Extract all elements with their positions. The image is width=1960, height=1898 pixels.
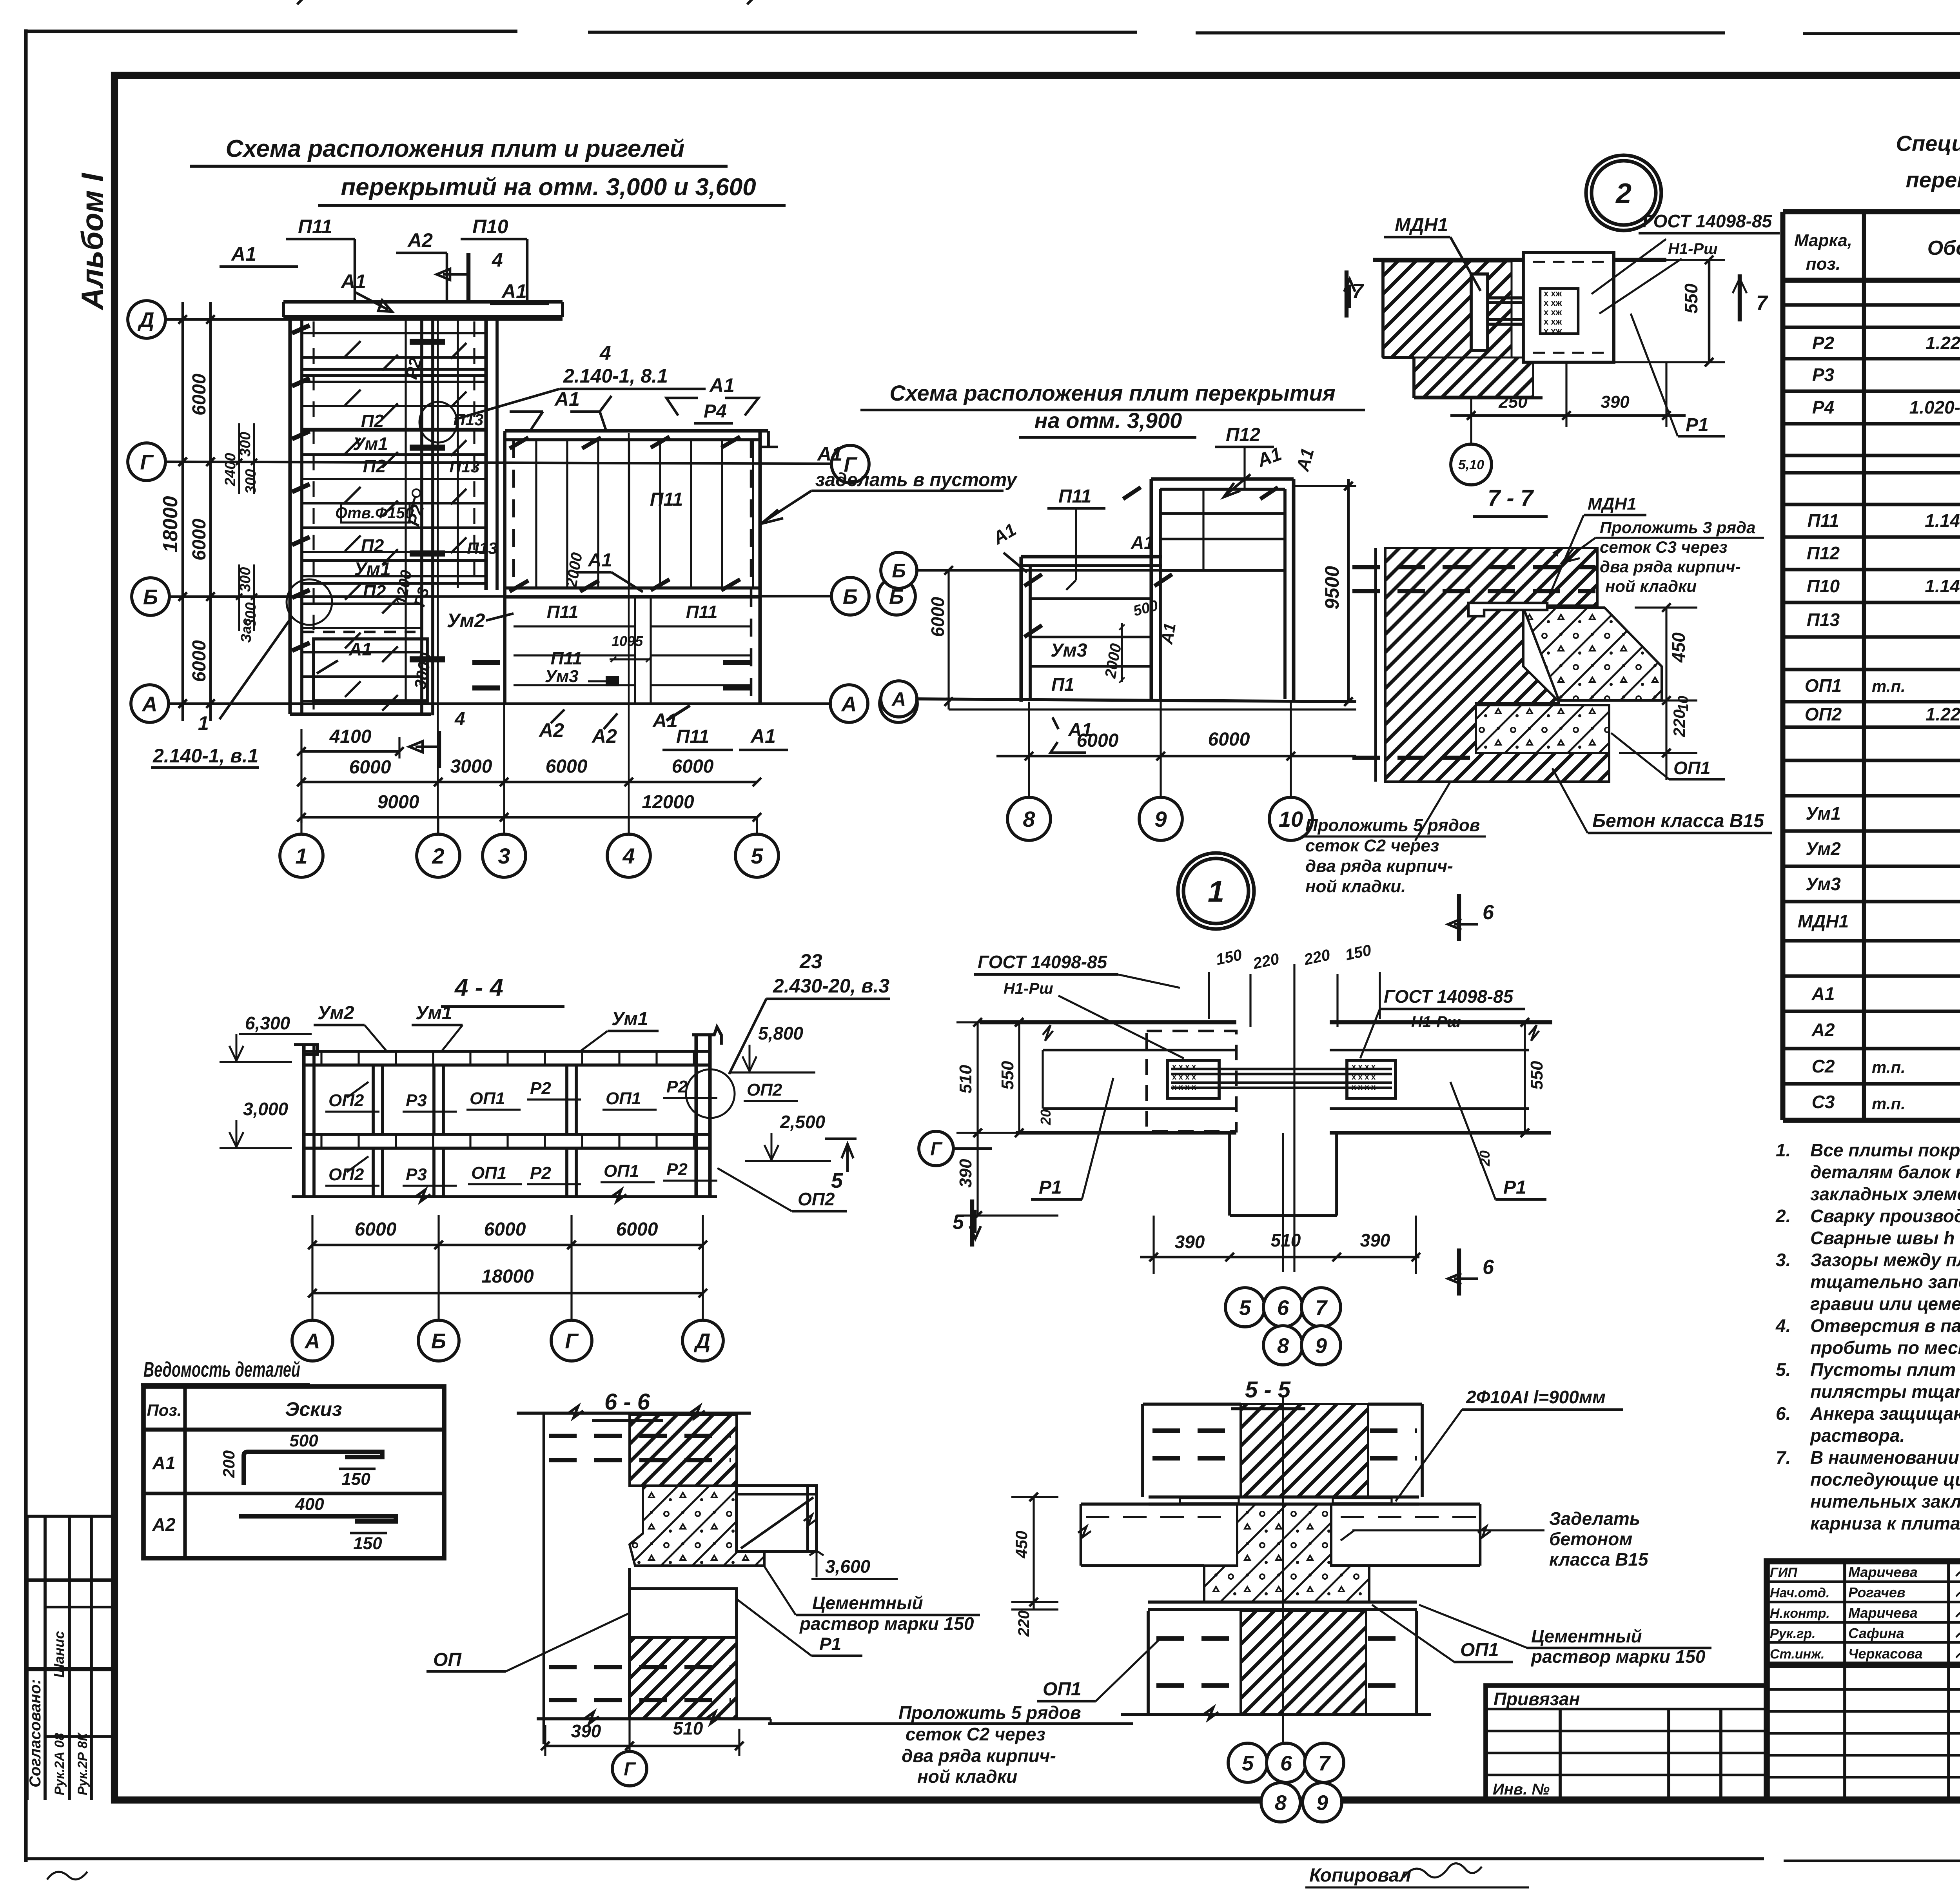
svg-text:Р1: Р1 [1686, 415, 1709, 435]
svg-text:А1: А1 [817, 443, 842, 465]
svg-text:5: 5 [953, 1211, 964, 1234]
svg-text:220: 220 [1015, 1610, 1033, 1637]
svg-text:пилястры тщательно забетониров: пилястры тщательно забетонировать. [1810, 1381, 1960, 1402]
svg-text:ОП1: ОП1 [1460, 1640, 1499, 1660]
attachment box left of stamp [1486, 1686, 1767, 1800]
4-4 dims [312, 1244, 703, 1247]
svg-text:6000: 6000 [189, 374, 210, 416]
svg-text:Эскиз: Эскиз [285, 1398, 342, 1420]
6-6 axis bubble Г [628, 1719, 630, 1751]
svg-text:6,300: 6,300 [245, 1013, 290, 1033]
svg-text:390: 390 [956, 1159, 975, 1188]
svg-text:ОП: ОП [433, 1649, 462, 1670]
svg-text:Н1-Рш: Н1-Рш [1004, 980, 1053, 997]
svg-text:Копировал: Копировал [1309, 1865, 1411, 1886]
svg-text:Черкасова: Черкасова [1848, 1646, 1923, 1662]
plan1 anchor marks (bold ticks) [292, 325, 310, 333]
svg-text:Ум3: Ум3 [545, 667, 579, 686]
plan1 lower-left room rect [314, 639, 427, 701]
node1 column bubbles 5 6 7 / 8 9 [1225, 1288, 1265, 1327]
4-4 structure [302, 1045, 305, 1198]
plan1 axis А [131, 685, 169, 722]
svg-text:18000: 18000 [159, 496, 182, 553]
svg-text:П11: П11 [298, 216, 332, 238]
svg-text:пробить по месту не нарушая ре: пробить по месту не нарушая ребер. [1810, 1337, 1960, 1358]
svg-text:10: 10 [1675, 696, 1691, 711]
svg-text:3,000: 3,000 [243, 1099, 289, 1119]
svg-text:1: 1 [295, 844, 307, 868]
svg-text:390: 390 [1360, 1230, 1390, 1250]
svg-text:300: 300 [243, 602, 259, 627]
svg-text:закладных элементов.: закладных элементов. [1810, 1184, 1960, 1204]
plan1 axis Д [128, 301, 165, 338]
title block (stamp) [1767, 1561, 1960, 1800]
svg-text:А1: А1 [230, 243, 256, 265]
svg-text:450: 450 [1012, 1531, 1031, 1559]
svg-text:ОП2: ОП2 [328, 1165, 364, 1184]
5-5 column bubbles [1228, 1743, 1267, 1782]
svg-text:Р3: Р3 [1812, 365, 1835, 385]
plan2 anchor ticks [1024, 574, 1042, 586]
svg-text:П2: П2 [361, 535, 384, 556]
svg-text:Заделать: Заделать [1549, 1508, 1640, 1529]
plan1 bottom dims [301, 0, 751, 0]
node1 right dims [1524, 1022, 1526, 1133]
svg-text:Шанис: Шанис [51, 1631, 67, 1678]
svg-text:Цементный: Цементный [812, 1593, 923, 1613]
svg-text:Отверстия в панелях покрытия и: Отверстия в панелях покрытия и перекрыти… [1810, 1316, 1960, 1336]
6-6 dims [545, 1745, 739, 1747]
svg-text:П11: П11 [1808, 510, 1839, 531]
plan2 column bubbles [1028, 702, 1030, 796]
svg-text:390: 390 [1175, 1232, 1205, 1252]
svg-text:А: А [304, 1329, 320, 1353]
svg-text:300: 300 [237, 432, 254, 457]
svg-text:Р2: Р2 [666, 1077, 688, 1096]
node1 connecting bars [1171, 1068, 1392, 1071]
svg-text:550: 550 [1527, 1061, 1546, 1090]
node1 break marks [1043, 1025, 1053, 1041]
svg-text:3.: 3. [1776, 1250, 1791, 1270]
svg-text:Привязан: Привязан [1494, 1689, 1580, 1709]
svg-text:1095: 1095 [612, 633, 643, 649]
svg-text:Инв. №: Инв. № [1493, 1781, 1550, 1798]
svg-text:6.: 6. [1776, 1403, 1791, 1424]
svg-text:Спецификация к схеме расположе: Спецификация к схеме расположения плит [1896, 131, 1960, 156]
svg-text:А1: А1 [1131, 532, 1154, 553]
svg-text:4 - 4: 4 - 4 [454, 974, 503, 1001]
svg-text:Р1: Р1 [1039, 1177, 1062, 1198]
svg-text:4: 4 [599, 342, 611, 365]
svg-text:20: 20 [1038, 1109, 1054, 1125]
svg-text:Р1: Р1 [1503, 1177, 1526, 1198]
svg-text:Рогачев: Рогачев [1848, 1584, 1906, 1600]
svg-text:А1: А1 [652, 709, 678, 731]
svg-text:ОП1: ОП1 [470, 1089, 505, 1108]
svg-text:2: 2 [432, 844, 444, 868]
4-4 leaders [347, 1082, 368, 1098]
6-6 wall [517, 1412, 751, 1415]
svg-text:П11: П11 [650, 489, 683, 510]
svg-text:ОП1: ОП1 [606, 1089, 641, 1108]
svg-text:3000: 3000 [450, 756, 492, 777]
svg-text:Б: Б [892, 560, 906, 582]
svg-text:П11: П11 [686, 602, 718, 622]
svg-text:П11: П11 [547, 602, 579, 622]
svg-text:1.141-1, вып. 64: 1.141-1, вып. 64 [1925, 510, 1960, 531]
svg-text:510: 510 [673, 1718, 703, 1738]
svg-text:Р4: Р4 [704, 401, 727, 422]
svg-text:ГОСТ 14098-85: ГОСТ 14098-85 [1384, 986, 1514, 1007]
7-7 wall hatched [1385, 548, 1609, 782]
svg-text:150: 150 [341, 1470, 370, 1489]
svg-text:Бетон класса В15: Бетон класса В15 [1592, 811, 1764, 831]
svg-text:x xж: x xж [1544, 289, 1562, 298]
svg-text:390: 390 [1601, 392, 1630, 412]
svg-text:МДН1: МДН1 [1588, 494, 1637, 514]
svg-text:250: 250 [1498, 392, 1528, 412]
svg-text:1: 1 [1208, 875, 1224, 908]
svg-text:А1: А1 [1157, 622, 1179, 646]
svg-text:6000: 6000 [672, 756, 714, 777]
svg-text:нительных закладных деталей дл: нительных закладных деталей для креплени… [1810, 1491, 1960, 1512]
svg-text:А2: А2 [407, 229, 433, 251]
6-6 dashed courses [549, 1434, 731, 1438]
svg-text:6: 6 [1280, 1751, 1292, 1775]
svg-text:6000: 6000 [349, 757, 391, 778]
svg-text:Ум1: Ум1 [1806, 803, 1841, 824]
svg-text:А1: А1 [709, 374, 735, 396]
svg-text:П13: П13 [467, 539, 497, 557]
svg-text:18000: 18000 [481, 1266, 534, 1287]
svg-text:Б: Б [843, 585, 858, 608]
svg-text:Сафина: Сафина [1848, 1625, 1904, 1641]
5-5 slabs [1081, 1502, 1237, 1506]
svg-text:П12: П12 [1807, 543, 1840, 563]
svg-text:2.: 2. [1775, 1206, 1791, 1226]
svg-text:А: А [142, 692, 158, 716]
svg-text:9000: 9000 [377, 792, 419, 813]
svg-text:200: 200 [220, 1450, 238, 1478]
svg-text:Нач.отд.: Нач.отд. [1770, 1586, 1829, 1600]
svg-text:6000: 6000 [189, 519, 210, 561]
svg-text:класса В15: класса В15 [1549, 1549, 1649, 1570]
svg-text:Г: Г [930, 1139, 943, 1159]
svg-text:А1: А1 [588, 550, 612, 571]
outer sheet border lines [24, 29, 27, 1862]
svg-text:П2: П2 [363, 456, 386, 476]
svg-text:ГОСТ 14098-85: ГОСТ 14098-85 [978, 952, 1108, 972]
svg-text:Анкера защищаются от коррозии: Анкера защищаются от коррозии слоем цеме… [1810, 1403, 1960, 1424]
svg-text:Г: Г [140, 450, 154, 474]
svg-text:бетоном: бетоном [1549, 1529, 1632, 1549]
svg-text:МДН1: МДН1 [1395, 215, 1448, 236]
svg-text:Р2: Р2 [1812, 333, 1835, 353]
svg-text:А1: А1 [1068, 720, 1092, 740]
svg-text:400: 400 [295, 1495, 324, 1514]
svg-text:x xж: x xж [1544, 298, 1562, 308]
svg-text:С2: С2 [1812, 1056, 1835, 1076]
svg-text:1.: 1. [1776, 1140, 1791, 1160]
node2 anchor bars [1488, 296, 1576, 299]
svg-text:Схема расположения плит перекр: Схема расположения плит перекрытия [889, 381, 1336, 405]
svg-text:5.: 5. [1776, 1359, 1791, 1380]
svg-text:П11: П11 [1058, 486, 1091, 507]
svg-text:П12: П12 [1226, 425, 1260, 445]
svg-text:5: 5 [831, 1169, 843, 1192]
svg-text:раствора.: раствора. [1809, 1425, 1905, 1446]
svg-text:А1: А1 [554, 388, 580, 410]
svg-text:6: 6 [1483, 901, 1494, 924]
svg-text:Ум3: Ум3 [1806, 874, 1841, 894]
svg-text:Б: Б [143, 585, 158, 609]
svg-text:220: 220 [1670, 709, 1688, 737]
svg-text:Ум1: Ум1 [416, 1003, 452, 1023]
svg-text:2.140-1, в.1: 2.140-1, в.1 [152, 745, 258, 767]
svg-text:2.140-1, 8.1: 2.140-1, 8.1 [563, 365, 668, 387]
plan1 left wing plank joints [303, 332, 485, 334]
node 2 circle [1586, 155, 1661, 230]
node2 bubble 5,10 [1451, 444, 1492, 485]
svg-text:6000: 6000 [1208, 729, 1250, 750]
svg-text:на отм. 3,900: на отм. 3,900 [1034, 408, 1182, 433]
svg-text:Р4: Р4 [1812, 397, 1834, 417]
svg-text:7: 7 [1315, 1296, 1328, 1319]
svg-text:ОП2: ОП2 [747, 1080, 782, 1100]
svg-text:Ум1: Ум1 [354, 559, 391, 580]
svg-text:Н.контр.: Н.контр. [1770, 1606, 1830, 1621]
svg-text:4: 4 [622, 844, 635, 868]
svg-text:6000: 6000 [927, 597, 948, 637]
svg-text:550: 550 [998, 1061, 1017, 1090]
svg-text:5: 5 [1239, 1296, 1251, 1319]
svg-text:2: 2 [1615, 178, 1632, 209]
svg-text:гравии или цементным раствором: гравии или цементным раствором марки 200… [1810, 1294, 1960, 1314]
svg-text:Г: Г [565, 1329, 579, 1353]
svg-text:Маричева: Маричева [1848, 1605, 1918, 1621]
svg-text:Р3: Р3 [406, 1091, 427, 1110]
svg-text:ОП1: ОП1 [1673, 758, 1710, 778]
svg-text:т.п.: т.п. [1872, 677, 1906, 695]
svg-text:x xж: x xж [1544, 326, 1562, 336]
svg-text:ОП2: ОП2 [1805, 704, 1842, 724]
svg-text:А1: А1 [501, 280, 527, 302]
svg-text:8: 8 [1277, 1334, 1289, 1357]
4-4 axis bubbles [292, 1320, 333, 1361]
svg-text:Согласовано:: Согласовано: [27, 1679, 44, 1787]
svg-text:карниза к плитам покрытия.: карниза к плитам покрытия. [1810, 1513, 1960, 1533]
svg-text:Марка,: Марка, [1794, 231, 1852, 250]
svg-text:x xж: x xж [1544, 317, 1562, 327]
svg-text:А2: А2 [152, 1514, 176, 1535]
svg-text:П1: П1 [1051, 674, 1074, 695]
6-6 lower wall part [630, 1589, 737, 1637]
svg-text:8: 8 [1023, 807, 1035, 831]
svg-text:т.п.: т.п. [1872, 1058, 1906, 1076]
node 1 circle [1178, 853, 1254, 929]
svg-text:МДН1: МДН1 [1798, 911, 1849, 931]
svg-text:1.020-1/83, вып. 3-1: 1.020-1/83, вып. 3-1 [1909, 397, 1960, 417]
svg-text:4100: 4100 [329, 726, 372, 747]
svg-text:Цементный: Цементный [1531, 1626, 1642, 1646]
svg-text:сеток С2 через: сеток С2 через [1305, 836, 1439, 855]
svg-text:А1: А1 [348, 639, 372, 659]
svg-text:4: 4 [492, 249, 503, 271]
svg-text:6000: 6000 [189, 640, 210, 682]
svg-text:Альбом I: Альбом I [75, 173, 109, 310]
5-5 anchor bars in seam [1149, 1495, 1419, 1499]
svg-text:Р1: Р1 [819, 1634, 841, 1654]
svg-text:А: А [891, 688, 906, 710]
svg-text:2400: 2400 [222, 453, 239, 486]
svg-text:П13: П13 [1807, 610, 1840, 630]
svg-text:два ряда кирпич-: два ряда кирпич- [1600, 557, 1741, 576]
plan1 small dims 2400/300/300 [238, 423, 240, 494]
svg-text:510: 510 [956, 1065, 975, 1094]
svg-text:П10: П10 [472, 216, 508, 238]
svg-text:2,500: 2,500 [780, 1112, 826, 1132]
svg-text:Ум2: Ум2 [318, 1003, 354, 1023]
svg-text:П11: П11 [551, 648, 583, 668]
svg-text:деталям балок не менее, чем в: деталям балок не менее, чем в 3* точках … [1810, 1162, 1960, 1182]
svg-text:Ум2: Ум2 [1806, 838, 1841, 859]
svg-text:x xж: x xж [1544, 307, 1562, 317]
svg-text:два ряда кирпич-: два ряда кирпич- [902, 1746, 1056, 1766]
node1 bottom dims [1140, 1256, 1419, 1259]
svg-text:3: 3 [498, 844, 510, 868]
svg-text:Обозначение: Обозначение [1927, 237, 1960, 259]
svg-text:заделать в пустоту: заделать в пустоту [815, 470, 1018, 490]
svg-text:5: 5 [751, 844, 763, 868]
svg-text:6000: 6000 [546, 756, 588, 777]
svg-text:300: 300 [243, 469, 259, 494]
svg-text:Ум2: Ум2 [447, 610, 485, 631]
svg-text:ной кладки.: ной кладки. [1305, 877, 1406, 896]
svg-text:1.225-2, вып. 11: 1.225-2, вып. 11 [1926, 333, 1960, 353]
svg-text:Р2: Р2 [530, 1079, 551, 1098]
svg-text:6000: 6000 [355, 1219, 397, 1240]
svg-text:Поз.: Поз. [147, 1401, 182, 1419]
svg-text:Рук.2Р 8К: Рук.2Р 8К [75, 1732, 90, 1795]
svg-text:ГОСТ 14098-85: ГОСТ 14098-85 [1642, 211, 1773, 231]
plan1 right wing [505, 429, 768, 432]
svg-text:П2: П2 [363, 581, 386, 602]
5-5 lower wall [1148, 1600, 1417, 1604]
5-5 left dims [1033, 1497, 1034, 1609]
svg-text:Ум1: Ум1 [353, 434, 388, 454]
svg-text:6000: 6000 [484, 1219, 526, 1240]
svg-text:ОП1: ОП1 [604, 1161, 639, 1181]
svg-text:1.225-2, вып. 11: 1.225-2, вып. 11 [1926, 704, 1960, 724]
svg-text:Сварку производить электродом: Сварку производить электродом типа Э42 п… [1810, 1206, 1960, 1226]
plan1 node circle bottom-left [287, 579, 332, 625]
svg-text:7: 7 [1756, 292, 1768, 314]
svg-text:5: 5 [1242, 1751, 1254, 1775]
plan1 column axis lines [437, 319, 439, 833]
svg-text:ной кладки: ной кладки [1605, 577, 1697, 595]
svg-text:С3: С3 [1812, 1092, 1835, 1112]
svg-text:1: 1 [198, 712, 209, 734]
5-5 center concrete pier [1204, 1504, 1369, 1602]
plan2 left block [1021, 555, 1162, 558]
svg-text:7.: 7. [1776, 1447, 1791, 1468]
6-6 slab from right [737, 1486, 817, 1551]
node1 axis Г bubble [919, 1131, 953, 1166]
svg-text:П13: П13 [450, 457, 480, 476]
svg-text:два ряда кирпич-: два ряда кирпич- [1305, 856, 1453, 876]
svg-text:т.п.: т.п. [1872, 1094, 1906, 1113]
plan1 right wing anchor marks [510, 437, 528, 448]
svg-text:раствор марки 150: раствор марки 150 [1530, 1646, 1706, 1667]
svg-text:ОП2: ОП2 [798, 1189, 835, 1209]
svg-text:2.430-20, в.3: 2.430-20, в.3 [773, 975, 889, 997]
svg-text:поз.: поз. [1806, 254, 1840, 274]
svg-text:9500: 9500 [1321, 566, 1343, 610]
plan1 column bubbles [300, 817, 302, 833]
svg-text:Р3: Р3 [406, 1165, 427, 1184]
svg-text:Отв.Ф150: Отв.Ф150 [335, 504, 414, 522]
svg-text:тщательно заполняются бетоном: тщательно заполняются бетоном класса В15… [1810, 1272, 1960, 1292]
svg-text:5,10: 5,10 [1458, 457, 1484, 472]
svg-text:ОП1: ОП1 [471, 1163, 506, 1183]
svg-text:Проложить 5 рядов: Проложить 5 рядов [1305, 816, 1480, 835]
plan2 axis Б [881, 552, 917, 588]
svg-text:500: 500 [289, 1431, 318, 1450]
svg-text:ОП1: ОП1 [1805, 675, 1842, 696]
svg-text:А1: А1 [340, 270, 366, 292]
svg-text:Б: Б [431, 1329, 446, 1353]
svg-text:Сварные швы h = 6мм, кроме ого: Сварные швы h = 6мм, кроме оговоренных. [1810, 1228, 1960, 1248]
bottom-left approval strip table [25, 1516, 29, 1800]
plan1 axis Г [128, 443, 165, 481]
5-5 top hatched wall [1241, 1404, 1368, 1497]
plan2 axis А [881, 681, 917, 717]
svg-text:6000: 6000 [616, 1219, 658, 1240]
svg-text:6 - 6: 6 - 6 [604, 1389, 650, 1415]
svg-text:А2: А2 [1811, 1020, 1835, 1040]
svg-text:Все плиты покрытия прив: Все плиты покрытия привариваются к закла… [1810, 1140, 1960, 1160]
7-7 dashed courses [1352, 565, 1595, 569]
node1 left dims [976, 1022, 978, 1216]
plan1 axis Б [132, 578, 169, 615]
svg-text:П11: П11 [676, 726, 709, 747]
node2 right anchor box [1523, 252, 1614, 362]
svg-text:3,600: 3,600 [825, 1556, 871, 1577]
svg-text:Р2: Р2 [666, 1160, 688, 1179]
svg-text:9: 9 [1316, 1791, 1328, 1815]
svg-text:Зазоры между плитами, а так же: Зазоры между плитами, а так же между пли… [1810, 1250, 1960, 1270]
svg-text:раствор марки 150: раствор марки 150 [799, 1613, 974, 1634]
svg-text:А1: А1 [750, 725, 776, 747]
node1 anchor plates [1167, 1060, 1219, 1098]
node1 slabs [980, 1020, 1236, 1024]
svg-text:12000: 12000 [642, 792, 694, 813]
svg-text:23: 23 [799, 950, 822, 973]
svg-text:П2: П2 [361, 411, 384, 431]
svg-text:Ст.инж.: Ст.инж. [1770, 1647, 1825, 1662]
svg-text:150: 150 [353, 1534, 382, 1553]
svg-text:Проложить 5 рядов: Проложить 5 рядов [898, 1702, 1081, 1723]
svg-text:Г: Г [624, 1759, 636, 1780]
svg-text:5,800: 5,800 [758, 1023, 804, 1043]
svg-text:7: 7 [1318, 1751, 1331, 1775]
svg-text:390: 390 [571, 1721, 601, 1741]
svg-text:Пустоты плит на опоре до дальн: Пустоты плит на опоре до дальнейшей выкл… [1810, 1359, 1960, 1380]
5-5 center axis line [1282, 1395, 1284, 1744]
svg-text:Д: Д [694, 1329, 711, 1353]
svg-text:8: 8 [1275, 1791, 1287, 1815]
node2 detail drawing [1373, 258, 1666, 262]
